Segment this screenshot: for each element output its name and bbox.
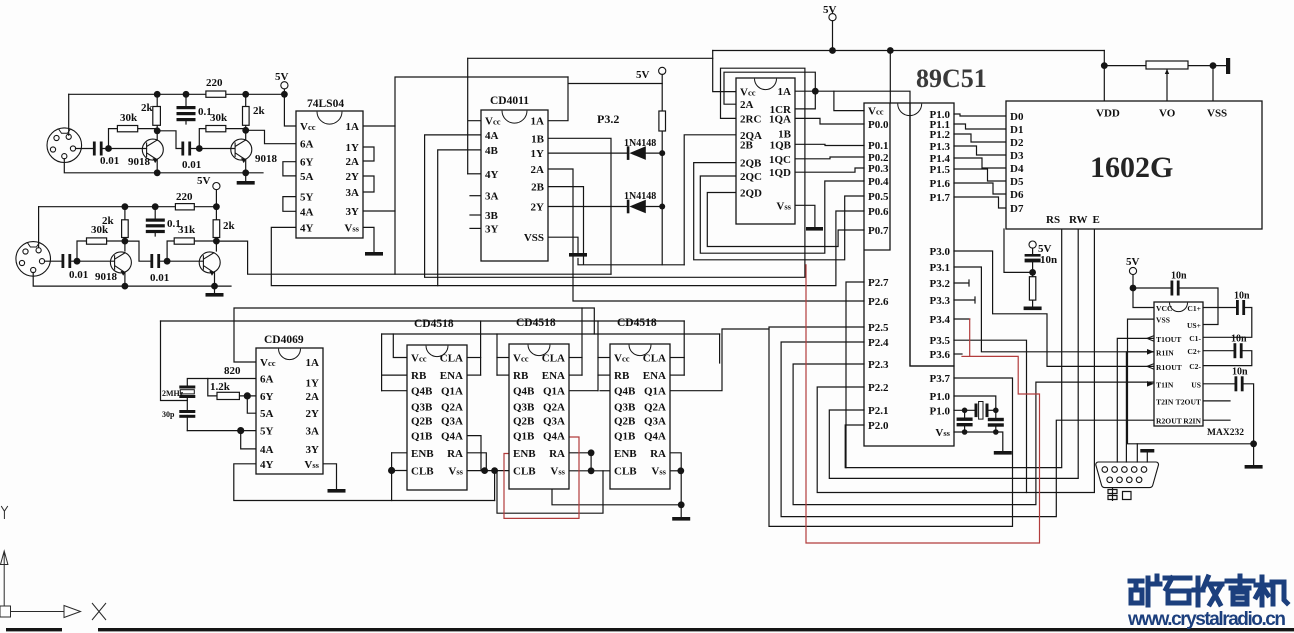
svg-text:6Y: 6Y: [300, 157, 314, 169]
wire DIN2 bottom to ground rail: [33, 273, 231, 287]
svg-text:T1OUT: T1OUT: [1156, 335, 1181, 344]
node dots CD4069 oscillator: [244, 392, 251, 399]
wire xtal right lead: [989, 409, 996, 411]
svg-text:R1IN: R1IN: [1156, 348, 1174, 357]
svg-text:Q2B: Q2B: [614, 416, 636, 428]
wire counter 1CR to 1A node: [795, 91, 815, 109]
svg-text:D5: D5: [1010, 176, 1024, 188]
svg-text:CD4011: CD4011: [490, 95, 529, 107]
CD4518 first labels: [411, 318, 464, 478]
transistor Q3 9018: [110, 252, 131, 275]
wire 5Y line: [187, 430, 256, 432]
wire CD4518-2 CLA ENA riser: [581, 308, 583, 375]
wire xtal cap stems: [965, 410, 996, 432]
wire CD4518-1 Vcc riser: [393, 334, 407, 358]
svg-text:C1-: C1-: [1189, 334, 1201, 343]
wire ground bus y264: [578, 264, 684, 266]
svg-text:5A: 5A: [260, 408, 274, 420]
svg-text:P1.7: P1.7: [930, 192, 951, 204]
wire 2k R2 leads: [156, 94, 158, 140]
counter labels: [740, 86, 792, 212]
resistor 30k circuit2: [87, 238, 107, 244]
wire base4 to 31k: [167, 241, 174, 261]
ground bar CD4069: [328, 489, 346, 493]
svg-text:3A: 3A: [485, 191, 499, 203]
svg-text:Q2B: Q2B: [411, 416, 433, 428]
wire P2.1 to LCD RW: [829, 229, 1078, 478]
wire CD4011 3A stub: [470, 195, 481, 197]
wire cap D to ground bus: [1243, 384, 1254, 444]
svg-text:0.01: 0.01: [182, 159, 201, 171]
svg-text:R1OUT: R1OUT: [1156, 363, 1182, 372]
svg-text:US+: US+: [1187, 321, 1201, 330]
svg-text:P0.0: P0.0: [868, 119, 889, 131]
svg-text:2Y: 2Y: [306, 408, 320, 420]
svg-text:0.01: 0.01: [100, 155, 119, 167]
svg-text:D2: D2: [1010, 137, 1024, 149]
resistor 31k circuit2: [174, 238, 194, 244]
svg-text:ENB: ENB: [411, 448, 434, 460]
wire P3.5 drop: [954, 340, 1027, 492]
power 5V circle top: [829, 14, 836, 21]
svg-text:P3.2: P3.2: [597, 112, 619, 126]
wire 74LS04 2Y-3A loop: [363, 176, 374, 192]
svg-text:5V: 5V: [823, 4, 837, 16]
svg-text:CLB: CLB: [411, 466, 434, 478]
ground bar potentiometer right: [1226, 58, 1230, 74]
svg-text:P3.3: P3.3: [930, 295, 951, 307]
wire CD4518-3 Q1A to P2 riser: [670, 329, 769, 391]
resistor 1.2k: [217, 392, 239, 399]
wire DIN1 top pin to 5V rail: [68, 94, 70, 135]
wire P1.0 to LCD D0: [954, 114, 1006, 116]
svg-text:P2.5: P2.5: [868, 322, 889, 334]
svg-text:Vss: Vss: [550, 466, 565, 478]
wire P3.6 stub: [954, 353, 962, 355]
svg-text:P0.7: P0.7: [868, 225, 889, 237]
wire 30k R3 to collector2 node: [226, 128, 246, 130]
wire ground stem circuit2: [214, 286, 216, 293]
wire counter 2QC to P0.4: [700, 176, 864, 253]
wire P3.4 stub: [954, 318, 970, 320]
svg-text:T2IN: T2IN: [1156, 397, 1174, 406]
ground bar MAX232: [1245, 465, 1263, 469]
hex inverter CD4069: [256, 348, 323, 474]
svg-text:P0.6: P0.6: [868, 206, 889, 218]
wire 2k R leads circuit2: [124, 207, 126, 241]
wire Q4 emitter: [214, 273, 216, 287]
svg-text:RB: RB: [614, 370, 630, 382]
wire MAX232 5V stem: [1132, 275, 1134, 288]
wire red P3.4 route: [806, 265, 1040, 543]
svg-text:CD4518: CD4518: [414, 318, 454, 330]
wire 5V rail drop to 89C51 top: [889, 51, 891, 104]
svg-text:2A: 2A: [346, 156, 360, 168]
svg-text:Q3B: Q3B: [614, 401, 636, 413]
wire red loop CD4518-2 Q4A to ENB: [504, 437, 579, 518]
svg-text:30k: 30k: [210, 112, 228, 124]
svg-text:Vss: Vss: [935, 427, 950, 439]
CD4518 second labels: [513, 317, 566, 478]
wire 5V stub circuit1: [283, 89, 285, 94]
svg-text:2B: 2B: [531, 182, 545, 194]
wire P1.0 xtal upper: [954, 396, 996, 410]
svg-text:9018: 9018: [255, 153, 278, 165]
svg-text:VCC: VCC: [1156, 304, 1172, 313]
svg-text:Vcc: Vcc: [614, 353, 630, 365]
svg-text:CLB: CLB: [513, 466, 536, 478]
wire CD4518-3 Vcc RB riser: [597, 321, 599, 391]
wire 74LS04 1A stub: [363, 125, 395, 127]
wire DIN2 pin to cap C5: [45, 260, 63, 262]
power 5V circle P3.2 node: [659, 67, 666, 74]
wire 0.1 cap stub: [185, 94, 187, 124]
svg-text:4B: 4B: [485, 145, 499, 157]
wire T2OUT stub: [1203, 400, 1230, 402]
wire Q4 collector node: [215, 241, 217, 251]
driver MAX232: [1154, 302, 1203, 426]
wire 5V cap resistor chain: [1032, 248, 1034, 306]
arrow R1OUT: [1147, 364, 1154, 370]
svg-text:P3.5: P3.5: [930, 335, 951, 347]
svg-text:3Y: 3Y: [485, 223, 499, 235]
svg-text:P1.6: P1.6: [930, 178, 951, 190]
svg-text:1QC: 1QC: [769, 154, 791, 166]
svg-text:VSS: VSS: [524, 232, 544, 244]
wire P1.0 xtal lower left: [954, 409, 975, 411]
wire 0.1 cap stub circuit2: [154, 207, 156, 236]
svg-text:P1.5: P1.5: [930, 164, 951, 176]
wire CD4518-1 CLB stub: [392, 470, 407, 472]
wire pot wiper to VO: [1166, 69, 1168, 101]
wire CD4011 1B to 89C51 P2.7: [548, 138, 611, 274]
capacitor 10n B: [1236, 300, 1239, 315]
ground bar circuit1: [237, 181, 255, 185]
watermark chinese text: [1130, 576, 1287, 605]
svg-text:1A: 1A: [306, 357, 320, 369]
power 5V circle circuit2: [213, 183, 220, 190]
svg-text:P3.7: P3.7: [930, 373, 951, 385]
svg-text:Q2A: Q2A: [644, 401, 666, 413]
svg-text:P2.0: P2.0: [868, 420, 889, 432]
svg-text:Q3B: Q3B: [513, 401, 535, 413]
wire counter 2A loop: [724, 72, 815, 104]
wire 74LS04 Vss to ground: [363, 227, 374, 252]
power 5V circle LCD backlight: [1029, 241, 1036, 248]
svg-text:Q2B: Q2B: [513, 416, 535, 428]
capacitor 10n A: [1171, 281, 1174, 296]
wire CD4518-3 Q4B stub: [600, 390, 610, 392]
wire CD4011 2Y to diode D2: [548, 206, 628, 208]
wire base2 node to 30k R3: [199, 129, 206, 149]
wire CD4011 1A riser: [548, 77, 662, 121]
wire 74LS04 6Y-5A loop: [283, 162, 296, 176]
svg-text:Vcc: Vcc: [260, 357, 276, 369]
wire riser to CD4011 Vcc: [468, 58, 481, 174]
74LS04 labels: [300, 98, 360, 234]
wire P3.2 stub: [954, 280, 969, 286]
svg-text:Q1A: Q1A: [644, 386, 666, 398]
svg-text:3Y: 3Y: [346, 206, 360, 218]
svg-text:RA: RA: [650, 448, 666, 460]
wire P1.5 to LCD D5: [954, 169, 1006, 181]
wire LCD backlight node: [1004, 229, 1033, 272]
capacitor 10n LCD: [1025, 254, 1041, 257]
connector DB9 serial: [1096, 462, 1159, 488]
svg-text:3A: 3A: [306, 426, 320, 438]
svg-text:P1.0: P1.0: [930, 405, 951, 417]
svg-text:Vss: Vss: [344, 222, 359, 234]
wire under loop 1 riser: [494, 471, 496, 501]
node dots potentiometer: [1101, 62, 1108, 69]
svg-text:CD4518: CD4518: [617, 317, 657, 329]
wire CD4011 VSS to ground: [548, 237, 578, 253]
wire CD4518-3 Q1A link: [569, 390, 598, 392]
arrow T1OUT: [1147, 336, 1154, 342]
wire P1.4 to LCD D4: [954, 158, 1006, 168]
svg-text:6Y: 6Y: [260, 391, 274, 403]
svg-text:5V: 5V: [197, 175, 211, 187]
svg-text:1QA: 1QA: [769, 113, 791, 125]
svg-text:CD4069: CD4069: [264, 334, 304, 346]
wire CD4518-1 Q4A drop: [467, 436, 481, 471]
inverter 74LS04: [296, 111, 363, 238]
svg-text:Vcc: Vcc: [411, 353, 427, 365]
wire cap A to US+: [1179, 288, 1218, 325]
wire 74LS04 1Y-2A loop: [363, 147, 374, 161]
wire 2k R leads stage2: [215, 207, 217, 241]
wire 1A-3Y vertical riser: [395, 77, 568, 274]
diode D1 1N4148: [627, 146, 646, 160]
wire counter 1QC to P0.2: [795, 157, 864, 159]
svg-text:2QC: 2QC: [740, 171, 762, 183]
capacitor 0.01 input2: [62, 254, 65, 268]
wire ground stem to long bus: [577, 259, 579, 265]
wire 5V symbol stem top: [832, 21, 834, 51]
ucs axis icon: [0, 506, 106, 620]
wire CD4518-3 RB stub: [598, 374, 610, 376]
wire Q2 collector to 74LS04 6A: [246, 130, 296, 143]
wire CD4518-1 Q4B stub: [382, 390, 407, 392]
wire CD4518-1 ENA stub: [467, 374, 481, 376]
power 5V circle circuit1: [281, 82, 288, 89]
svg-text:10n: 10n: [1040, 254, 1057, 266]
bottom border line: [6, 628, 62, 631]
wire C5 to Q3 base: [71, 260, 115, 262]
svg-text:ENA: ENA: [542, 370, 565, 382]
svg-text:D3: D3: [1010, 150, 1024, 162]
svg-text:Q3A: Q3A: [543, 416, 565, 428]
svg-text:VSS: VSS: [1156, 316, 1170, 325]
svg-text:5V: 5V: [636, 69, 650, 81]
svg-text:2Y: 2Y: [346, 171, 360, 183]
counter CD4518 third: [610, 344, 670, 489]
svg-text:T2OUT: T2OUT: [1176, 397, 1201, 406]
svg-text:30p: 30p: [162, 410, 175, 419]
wire P3.1 to MAX232 R1IN: [954, 267, 1154, 352]
svg-text:Vcc: Vcc: [868, 106, 884, 118]
wire P2.4 to MAX232 R2OUT: [781, 342, 1154, 517]
crystal 89C51 body: [979, 402, 983, 420]
wire cap C to C2-: [1203, 351, 1252, 366]
wire CD4011 4Y feedback: [468, 173, 481, 175]
wire DIN1 pin to cap C1: [76, 148, 95, 150]
wire P2.3 to MAX232 T1IN: [793, 364, 1154, 505]
capacitor 30p: [179, 410, 195, 413]
svg-text:VO: VO: [1159, 108, 1176, 120]
svg-text:2Y: 2Y: [531, 202, 545, 214]
wire CD4518-3 CLA ENA riser: [683, 321, 685, 375]
wire 5V dropper chain P3.2 node: [661, 74, 663, 264]
svg-text:ENB: ENB: [513, 448, 536, 460]
capacitor 0.01 coupling1: [181, 142, 184, 156]
svg-text:Q1B: Q1B: [513, 431, 535, 443]
svg-text:RB: RB: [411, 370, 427, 382]
wire counter 2R loop to 1QD: [425, 68, 805, 277]
crystal 89C51 plates: [975, 404, 978, 418]
svg-text:2A: 2A: [306, 391, 320, 403]
svg-text:4Y: 4Y: [300, 222, 314, 234]
ground bar counter: [806, 227, 823, 231]
wire CD4011 1Y to diode D1: [548, 152, 628, 154]
svg-text:Q4B: Q4B: [614, 386, 636, 398]
wire T4 right drop ENA3: [719, 334, 721, 363]
svg-text:D4: D4: [1010, 163, 1024, 175]
node dots circuit2 rail: [122, 203, 129, 210]
ground bar DB9: [1140, 449, 1154, 453]
svg-text:10n: 10n: [1234, 291, 1250, 302]
resistor 30k stage2: [206, 126, 226, 132]
svg-text:1A: 1A: [346, 121, 360, 133]
svg-text:P2.2: P2.2: [868, 382, 889, 394]
wire 2k R4 leads: [245, 94, 247, 140]
svg-text:Q3A: Q3A: [644, 416, 666, 428]
wire CD4069 Vss to ground: [323, 464, 337, 489]
wire counter 1QA to P0.0: [795, 118, 864, 124]
svg-text:Q4B: Q4B: [513, 386, 535, 398]
wire DIN1 bottom to ground rail: [64, 159, 263, 173]
wire DIN2 top pin to rail: [38, 207, 40, 247]
svg-text:Q4A: Q4A: [441, 431, 463, 443]
svg-text:P0.5: P0.5: [868, 191, 889, 203]
svg-text:CLA: CLA: [643, 353, 666, 365]
ground bar CD4011: [569, 253, 587, 257]
svg-text:CLA: CLA: [542, 353, 565, 365]
svg-text:5A: 5A: [300, 171, 314, 183]
node dots CD4518 clock chain: [388, 467, 395, 474]
wire clock bus under chip3: [552, 489, 681, 505]
transistor Q4 9018: [199, 252, 220, 275]
resistor 220 circuit2: [175, 204, 194, 210]
wire ground bus to DB9: [1136, 444, 1138, 462]
wire 5V rail circuit 2: [39, 206, 217, 208]
wire CD4518-1 RA drop: [467, 453, 486, 471]
wire diode D1 to 5V node: [646, 152, 662, 154]
svg-text:Vcc: Vcc: [300, 121, 316, 133]
wire CD4518-1 CLA stub: [467, 357, 481, 359]
wire Q3 collector node: [124, 241, 126, 251]
svg-text:P1.2: P1.2: [930, 129, 951, 141]
svg-text:P3.0: P3.0: [930, 246, 951, 258]
wire 6A to 1.2k riser: [208, 379, 217, 396]
svg-text:30k: 30k: [91, 224, 109, 236]
power 5V circle MAX232: [1129, 267, 1136, 274]
svg-text:R2OUT: R2OUT: [1156, 417, 1182, 426]
svg-text:0.01: 0.01: [69, 269, 88, 281]
wire CD4069 4Y clock bus: [234, 464, 495, 501]
wire pot left lead: [1104, 65, 1146, 67]
capacitor xtal left: [957, 418, 973, 421]
wire cap C2 to Q2 base: [190, 148, 234, 150]
connector DIN2: [16, 242, 51, 277]
wire top bus T4: [382, 333, 720, 335]
svg-text:74LS04: 74LS04: [307, 98, 344, 110]
svg-text:1602G: 1602G: [1090, 151, 1173, 184]
wire counter 1QD to P0.3: [795, 168, 864, 172]
svg-text:2QB: 2QB: [740, 158, 762, 170]
wire P3.7 to P2.5 loop: [769, 327, 1013, 526]
svg-text:Q1B: Q1B: [411, 431, 433, 443]
wire base3 to 30k: [77, 241, 87, 261]
ground bar 74LS04: [365, 252, 383, 256]
crystal 2MHz plates: [179, 386, 195, 389]
svg-text:1.2k: 1.2k: [210, 381, 231, 393]
wire P2.0 to LCD RS: [845, 229, 1061, 468]
svg-text:1QD: 1QD: [769, 167, 791, 179]
svg-text:CLA: CLA: [440, 353, 463, 365]
svg-text:2k: 2k: [253, 105, 266, 117]
svg-text:820: 820: [224, 365, 241, 377]
wire h2 left drop to crystal: [161, 321, 188, 401]
wire 30k to collector3: [107, 240, 125, 242]
svg-text:T1IN: T1IN: [1156, 380, 1174, 389]
svg-text:P0.4: P0.4: [868, 176, 889, 188]
svg-text:Q3A: Q3A: [441, 416, 463, 428]
serial port label: [1108, 488, 1131, 501]
wire 5V down to VCC pin: [1133, 288, 1154, 308]
svg-text:CLB: CLB: [614, 466, 637, 478]
wire P1.3 to LCD D3: [954, 146, 1006, 155]
svg-text:D0: D0: [1010, 111, 1024, 123]
CD4518 third labels: [614, 317, 667, 478]
wire 1.2k to 6Y: [239, 395, 256, 397]
svg-text:Vss: Vss: [776, 200, 791, 212]
svg-text:3Y: 3Y: [306, 444, 320, 456]
wire 5V stub circuit2: [215, 190, 217, 207]
wire CD4518-1 ENB stub: [392, 452, 407, 454]
wire 74LS04 4Y to CD4011 4A: [271, 211, 864, 286]
svg-text:Q4A: Q4A: [543, 431, 565, 443]
svg-text:ENA: ENA: [440, 370, 463, 382]
svg-text:10n: 10n: [1171, 271, 1187, 282]
CD4069 labels: [260, 334, 320, 471]
svg-text:Q4A: Q4A: [644, 431, 666, 443]
potentiometer wiper arrow: [1165, 69, 1169, 74]
svg-text:P1.0: P1.0: [930, 391, 951, 403]
svg-text:P3.2: P3.2: [930, 278, 951, 290]
wire C6 to Q4 base: [159, 260, 203, 262]
svg-text:Q1B: Q1B: [614, 431, 636, 443]
svg-text:RA: RA: [447, 448, 463, 460]
wire DB9 pin5 ground stem: [1146, 453, 1148, 463]
svg-text:1N4148: 1N4148: [624, 138, 656, 149]
svg-text:1QB: 1QB: [770, 139, 792, 151]
wire CD4011 3Y stub: [470, 227, 481, 229]
capacitor 0.1 circuit2: [146, 219, 165, 222]
wire CD4518-2 Vcc stub: [497, 357, 509, 359]
wire 5V rail drop to counter Vcc: [713, 51, 736, 92]
svg-text:Q3B: Q3B: [411, 401, 433, 413]
